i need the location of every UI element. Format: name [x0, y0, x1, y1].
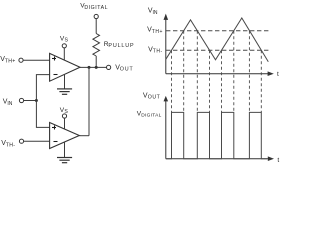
- svg-text:OUT: OUT: [120, 67, 134, 73]
- node VTH- label: [1, 140, 15, 149]
- label VDIGITAL graph: [137, 110, 162, 118]
- label VIN graph: [148, 8, 158, 16]
- svg-text:IN: IN: [153, 10, 158, 16]
- terminal VIN: [19, 98, 23, 102]
- node VOUT label: [115, 64, 133, 72]
- wire VIN to junction: [24, 100, 37, 102]
- wire VS to U2: [64, 118, 66, 129]
- op-amp U2: [50, 123, 80, 149]
- terminal VS U1: [62, 44, 66, 48]
- wire U1 inverting input: [36, 75, 49, 101]
- axis VIN vertical: [165, 20, 167, 74]
- node VS (U1) label: [60, 35, 69, 43]
- axis t top horizontal: [166, 73, 268, 75]
- wire U2 output: [79, 135, 89, 137]
- node VS (U2) label: [60, 107, 69, 115]
- threshold VTH+ dashed line: [166, 30, 271, 32]
- terminal VTH+: [19, 58, 23, 62]
- terminal VTH-: [19, 139, 23, 143]
- svg-text:S: S: [65, 38, 69, 44]
- wire VIN to U2 noninverting: [36, 101, 49, 128]
- svg-text:IN: IN: [7, 101, 12, 107]
- svg-text:TH-: TH-: [153, 49, 163, 55]
- axis VOUT vertical: [165, 101, 167, 159]
- label t top: [277, 71, 279, 78]
- svg-text:t: t: [277, 71, 279, 78]
- resistor RPULLUP: [93, 34, 100, 57]
- label VTH+ graph: [147, 27, 163, 35]
- svg-text:TH+: TH+: [5, 58, 16, 64]
- waveform VIN triangle wave: [166, 18, 268, 62]
- label VTH- graph: [148, 46, 163, 54]
- op-amp U1: [50, 53, 80, 81]
- svg-text:OUT: OUT: [148, 95, 161, 101]
- wire VDIGITAL to RPULLUP: [95, 19, 97, 34]
- waveform VOUT square wave: [166, 112, 267, 158]
- node VIN label: [3, 98, 13, 106]
- node VDIGITAL label: [80, 2, 108, 10]
- terminal VDIGITAL: [94, 14, 98, 18]
- label t bottom: [277, 157, 279, 164]
- junction VIN: [35, 99, 38, 102]
- wire VTH- to U2: [24, 140, 50, 142]
- axis t bottom horizontal: [166, 158, 269, 160]
- axis t bottom arrowhead: [268, 156, 274, 161]
- wire RPULLUP to output node: [95, 56, 97, 67]
- svg-text:TH+: TH+: [152, 29, 163, 35]
- axis t top arrowhead: [268, 71, 274, 76]
- ground U1: [57, 89, 72, 94]
- wire output down branch: [88, 67, 90, 135]
- svg-text:t: t: [277, 157, 279, 164]
- axis VOUT arrowhead: [164, 96, 169, 102]
- junction output-branch: [88, 66, 91, 69]
- wire VTH+ to U1: [23, 59, 49, 61]
- wire U2 to ground: [64, 142, 66, 157]
- axis VIN arrowhead: [164, 14, 169, 20]
- wire VS to U1: [63, 48, 65, 60]
- svg-text:DIGITAL: DIGITAL: [84, 5, 108, 11]
- terminal VS U2: [62, 114, 66, 118]
- wire U1 to ground: [64, 75, 66, 89]
- junction output-resistor: [95, 66, 98, 69]
- label VOUT graph: [143, 92, 161, 100]
- wire output row: [80, 66, 107, 68]
- crossing dashed verticals: [172, 31, 262, 113]
- terminal VOUT: [107, 65, 111, 69]
- node VTH+ label: [0, 56, 15, 65]
- threshold VTH- dashed line: [166, 49, 271, 51]
- ground U2: [57, 158, 72, 163]
- svg-text:DIGITAL: DIGITAL: [141, 113, 161, 119]
- svg-text:PULLUP: PULLUP: [108, 43, 134, 49]
- svg-text:TH-: TH-: [6, 142, 15, 148]
